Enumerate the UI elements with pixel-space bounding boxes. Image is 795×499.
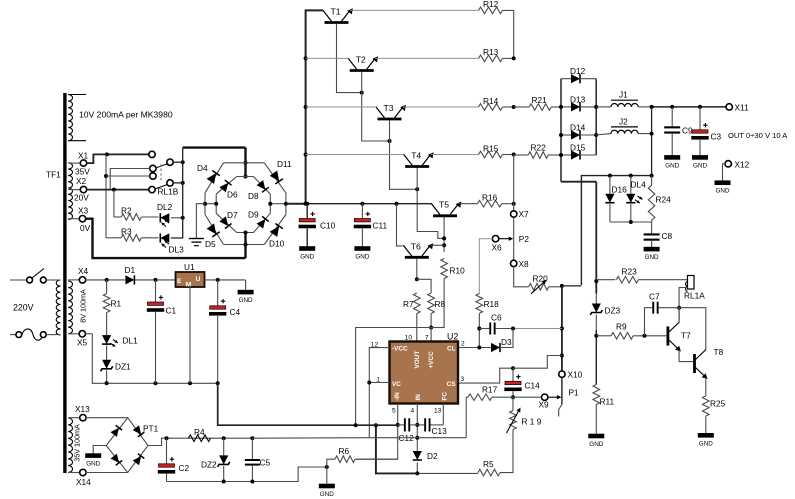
node DL4 top (629, 174, 633, 178)
svg-text:GND: GND (716, 188, 730, 195)
wire C11 bottom (361, 229, 363, 247)
ground R25 (698, 433, 714, 447)
diode D12 (561, 66, 596, 83)
diode PT1 a (111, 425, 123, 437)
node C5 bottom (250, 480, 254, 484)
bridge PT1 diamond (106, 418, 148, 473)
wire C8 to gnd (651, 241, 653, 247)
node T5 base T6emit (442, 243, 446, 247)
node D13 right (594, 105, 598, 109)
svg-text:VOUT: VOUT (414, 351, 421, 369)
diode DL3 (160, 233, 169, 247)
transistor T5 (432, 200, 462, 216)
svg-text:2: 2 (461, 341, 465, 348)
diode PT1 c (111, 454, 123, 466)
transistor T4 (404, 151, 434, 167)
label D5 (205, 239, 216, 249)
bridge outer octagon (205, 163, 286, 245)
svg-text:R18: R18 (484, 299, 500, 309)
wire node to riser (562, 285, 582, 287)
svg-text:D5: D5 (205, 239, 216, 249)
node DZ1 rail (105, 381, 109, 385)
svg-text:GND: GND (320, 491, 334, 498)
node bridge bottom inner (244, 231, 248, 235)
label D7 (227, 210, 238, 220)
svg-text:GND: GND (86, 461, 100, 468)
diode block left rail (560, 79, 562, 182)
label 20V (74, 193, 89, 203)
inductor J1 (596, 90, 651, 107)
ground X12 (715, 180, 731, 194)
node bridge top outer (244, 161, 248, 165)
node neg rail top (374, 423, 378, 427)
label D10 (269, 239, 285, 249)
svg-text:-IN: -IN (394, 392, 401, 401)
svg-text:220V: 220V (13, 303, 34, 313)
U2 pin number 4 (411, 408, 415, 415)
diode D8 (257, 180, 269, 192)
node C6 right (511, 327, 515, 331)
svg-text:35V: 35V (75, 167, 90, 177)
svg-text:R4: R4 (194, 427, 205, 437)
svg-text:20V: 20V (74, 193, 89, 203)
svg-text:R12: R12 (483, 0, 499, 9)
svg-text:10: 10 (405, 334, 413, 341)
wire T4 base chain (417, 168, 444, 239)
label P1 (569, 387, 580, 397)
winding 35V aux (68, 418, 72, 472)
svg-text:T8: T8 (714, 347, 724, 357)
wire D1 to U1 (134, 279, 175, 281)
svg-text:X6: X6 (492, 243, 503, 253)
node bridge top inner (244, 175, 248, 179)
wire plus rail (306, 203, 432, 205)
svg-text:M: M (186, 282, 192, 289)
wire R19 to R5 (500, 445, 513, 473)
node pin2 R18 (477, 346, 481, 350)
wire negative rail thick (376, 425, 417, 473)
label PT1 (143, 424, 159, 434)
diode block right rail (595, 79, 597, 155)
wire R10 bottom (431, 279, 444, 328)
U2 pin number 5 (392, 408, 396, 415)
wire D15 thick L (561, 181, 596, 183)
node DZ2 bottom (222, 480, 226, 484)
wire R5 to D2 node (417, 472, 478, 474)
resistor R21 (529, 95, 551, 110)
svg-text:D7: D7 (227, 210, 238, 220)
svg-text:R20: R20 (533, 274, 549, 284)
capacitor C5 (245, 458, 271, 468)
node R8 rail (429, 326, 433, 330)
svg-text:X5: X5 (77, 338, 88, 348)
U2 pin number 3 (461, 376, 465, 383)
wire R12 to right bus (503, 10, 514, 58)
wire pin5 (356, 404, 398, 460)
terminal X5 (68, 331, 87, 348)
node CS link tap (560, 354, 564, 358)
svg-text:R22: R22 (531, 143, 547, 153)
svg-text:GND: GND (699, 440, 713, 447)
wire X2 branch down (114, 190, 121, 217)
wire X5 stub (85, 333, 92, 335)
wire C14 bottom lead (512, 391, 514, 397)
potentiometer P2 track (513, 217, 515, 260)
transistor T7 (668, 322, 681, 352)
diode D16 (605, 176, 614, 222)
svg-text:R23: R23 (622, 267, 638, 277)
winding primary 220V (56, 280, 60, 335)
ground C11 (354, 246, 370, 260)
svg-text:13: 13 (434, 408, 442, 415)
terminal X1 (68, 151, 88, 167)
diode D7 (219, 216, 231, 228)
zener DZ3 (590, 293, 602, 330)
svg-text:GND: GND (589, 441, 603, 448)
potentiometer P1 tail (559, 405, 562, 417)
node T5 base T4chain (442, 236, 446, 240)
svg-text:GND: GND (693, 162, 707, 169)
capacitor C2 (158, 457, 190, 474)
capacitor C11 (354, 212, 388, 231)
wire C5 leads (251, 438, 253, 481)
label TF1 (46, 170, 61, 180)
U2 pin number 2 (461, 341, 465, 348)
wire C3 to gnd (699, 140, 701, 155)
svg-text:-VCC: -VCC (392, 346, 408, 353)
wire T7 collector up (678, 308, 680, 323)
node bus T2 tap (304, 56, 308, 60)
svg-text:C2: C2 (179, 463, 190, 473)
resistor R7 (403, 293, 420, 314)
terminal X8 (511, 259, 530, 269)
svg-text:T3: T3 (384, 103, 394, 113)
node R6 gnd (325, 465, 329, 469)
U2 pin number 13 (434, 408, 442, 415)
wire DL1 to DZ1 (106, 346, 108, 360)
wire U1 gnd stub (245, 280, 247, 290)
label D6 (227, 190, 238, 200)
svg-text:P1: P1 (569, 387, 580, 397)
wire T1 emitter row R12 (350, 9, 479, 11)
svg-text:X8: X8 (519, 259, 530, 269)
resistor R13 (479, 47, 503, 62)
resistor R6 (327, 446, 355, 467)
diode D15 (561, 142, 596, 159)
svg-text:X14: X14 (76, 477, 91, 487)
label P2 (519, 234, 530, 244)
label 10V 200mA per MK3980 (79, 110, 173, 120)
contact RL1B fixed D (149, 186, 155, 192)
diode D5 (207, 224, 220, 237)
svg-text:R6: R6 (339, 446, 350, 456)
wire main bus vertical (286, 10, 323, 203)
wire C2 leads (166, 438, 168, 481)
wire zero rail lower (219, 424, 398, 426)
wire C4 top lead (217, 280, 219, 306)
wire T2 emitter row R13 (375, 57, 478, 59)
wire T8 emitter down (705, 377, 707, 396)
wire T5 base (443, 217, 445, 252)
svg-text:C13: C13 (432, 426, 448, 436)
svg-text:R16: R16 (482, 193, 498, 203)
svg-text:D10: D10 (269, 239, 285, 249)
U2 pin number 12 (371, 341, 379, 348)
wire X13 line (86, 417, 128, 419)
node U1M rail (188, 381, 192, 385)
wire aux zero rail (92, 334, 217, 384)
potentiometer P1 track (561, 377, 563, 404)
svg-text:8V 100mA: 8V 100mA (79, 289, 88, 323)
node DZ2 top (222, 436, 226, 440)
wire DL2 to bus (171, 217, 183, 219)
U2 pin name VC (392, 381, 401, 388)
diode D3 (491, 337, 512, 352)
node R20 right (560, 284, 564, 288)
diode D1 (125, 265, 136, 285)
svg-text:IN: IN (415, 394, 422, 401)
svg-text:R21: R21 (532, 95, 548, 105)
wire R16 to node (502, 203, 514, 205)
label D9 (248, 210, 259, 220)
wire T4 emitter row R15 (431, 154, 479, 156)
diode D10 (270, 224, 283, 237)
U2 pin name FC (442, 392, 449, 401)
terminal X4 (68, 266, 88, 283)
resistor R24 (648, 185, 671, 220)
svg-text:T2: T2 (356, 54, 366, 64)
ground U1 area (238, 290, 254, 304)
wire CS jog (458, 368, 513, 383)
svg-text:PT1: PT1 (143, 424, 159, 434)
wire C1 bottom lead (155, 312, 157, 383)
node right bus R13 (512, 56, 516, 60)
label DL3 (169, 245, 185, 255)
node J2 riser top (650, 105, 654, 109)
svg-text:CL: CL (447, 346, 456, 353)
wire R7 to pin10 (416, 314, 418, 342)
svg-text:DZ1: DZ1 (115, 362, 131, 372)
wire R13 to right bus (503, 57, 514, 59)
svg-text:X10: X10 (568, 370, 583, 380)
node C5 top (250, 436, 254, 440)
node bridge left outer (203, 202, 207, 206)
ground earth bridge (189, 239, 204, 246)
wire C4 drop (217, 383, 220, 425)
inductor J2 (596, 117, 651, 136)
svg-text:C7: C7 (649, 292, 660, 302)
svg-text:R7: R7 (403, 299, 414, 309)
transistor T3 (376, 103, 406, 119)
svg-text:FC: FC (442, 392, 449, 401)
node C1 rail (154, 381, 158, 385)
svg-text:GND: GND (300, 254, 314, 261)
wire R24 top lead (651, 176, 653, 186)
label U1 (184, 262, 195, 272)
diode D14 (561, 122, 596, 139)
label 0V (80, 223, 91, 233)
wire bridge top feed (244, 148, 246, 177)
svg-text:R11: R11 (600, 397, 615, 407)
terminal X9 (539, 394, 550, 410)
node J2 riser mid (650, 132, 654, 136)
svg-text:U2: U2 (447, 332, 458, 342)
svg-text:X7: X7 (519, 209, 530, 219)
svg-text:D1: D1 (125, 265, 136, 275)
diode DZ2 (201, 438, 230, 469)
node C9 tap (670, 105, 674, 109)
svg-text:GND: GND (645, 254, 659, 261)
label DL2 (157, 202, 173, 212)
node C11 tap (360, 202, 364, 206)
svg-text:J2: J2 (619, 117, 628, 127)
trimmer R20 (529, 274, 549, 294)
node zero rail junction (354, 423, 358, 427)
svg-text:DL3: DL3 (169, 245, 185, 255)
svg-text:C1: C1 (166, 306, 177, 316)
svg-text:U1: U1 (184, 262, 195, 272)
svg-text:D9: D9 (248, 210, 259, 220)
wire armA to bus (173, 161, 183, 163)
node C7 R9 (643, 334, 647, 338)
wire C11 lead (361, 204, 363, 219)
diode D9 (257, 216, 269, 228)
wire D16 DL4 bottom rail (610, 221, 652, 223)
label D4 (197, 163, 208, 173)
svg-text:35V 100mA: 35V 100mA (73, 424, 82, 462)
label RL1A (684, 291, 705, 301)
wire U1 out (205, 279, 246, 281)
node R23 tap (594, 279, 598, 283)
op-amp U2 box (390, 342, 459, 404)
node pin1 pin12 (367, 381, 371, 385)
wire CL D3 line (458, 347, 491, 349)
wire T3 base (390, 120, 418, 189)
ground C8 (644, 247, 660, 261)
svg-text:X3: X3 (78, 206, 89, 216)
label T7 (681, 331, 691, 341)
svg-text:C9: C9 (682, 126, 693, 136)
winding 8V (68, 281, 72, 334)
svg-text:C3: C3 (711, 132, 722, 142)
node DL4 bottom (629, 220, 633, 224)
wire X6 to P2 wiper (499, 237, 513, 241)
wire C4 bottom lead (217, 316, 219, 384)
wire R23 to coil (638, 279, 688, 281)
svg-text:X4: X4 (78, 266, 89, 276)
capacitor C7 (645, 292, 680, 336)
label DZ3 (605, 306, 621, 316)
contact RL1B mid B (150, 165, 156, 171)
ground R11 (588, 434, 604, 448)
terminal X13 (68, 404, 90, 421)
node bus T3 tap (304, 105, 308, 109)
node T6 collector tap (395, 202, 399, 206)
svg-text:TF1: TF1 (46, 170, 61, 180)
wire X9 line (513, 396, 542, 398)
capacitor C6 (479, 313, 513, 335)
svg-text:R14: R14 (483, 96, 499, 106)
wire R9 to T7 base (633, 335, 666, 337)
node bus T4 tap (304, 153, 308, 157)
node C10 tap (305, 202, 309, 206)
svg-text:C4: C4 (230, 307, 241, 317)
svg-text:X1: X1 (78, 151, 89, 161)
svg-text:R24: R24 (656, 195, 672, 205)
wire minus aux rail (252, 437, 369, 440)
U1 pin M (186, 282, 192, 289)
wire X1branch to R3 (106, 237, 121, 239)
svg-text:C11: C11 (373, 221, 388, 231)
diode D6 (219, 180, 231, 192)
wire pin4 (416, 404, 418, 452)
svg-text:E: E (177, 278, 182, 285)
label 220V (13, 303, 34, 313)
wire DL3 to bus (171, 162, 183, 238)
label U2 (447, 332, 458, 342)
resistor R10 (441, 259, 465, 279)
resistor R23 (596, 267, 638, 284)
diode DL1 (102, 335, 138, 347)
ground R6 (319, 467, 335, 498)
svg-text:R8: R8 (435, 299, 446, 309)
resistor R18 (476, 293, 499, 313)
capacitor C12 (398, 418, 418, 443)
svg-text:R1: R1 (111, 299, 122, 309)
wire vcc minus rail (369, 437, 466, 439)
svg-text:C10: C10 (320, 221, 336, 231)
label D11 (277, 159, 292, 169)
wire bus to T3 (306, 106, 376, 108)
switch SW mains (10, 269, 61, 283)
label DL4 (631, 179, 647, 189)
wire PT1 out (148, 438, 167, 445)
label 35V 100mA (73, 424, 82, 462)
node C2 top (165, 436, 169, 440)
capacitor C13 (417, 418, 447, 436)
U2 pin name IN (415, 394, 422, 401)
resistor R5 (478, 459, 500, 476)
svg-text:R 1 9: R 1 9 (522, 417, 542, 427)
ground C10 (299, 246, 315, 260)
wire C1 top lead (155, 280, 157, 302)
label D8 (248, 191, 259, 201)
wire R15 to right bus (503, 154, 514, 156)
resistor R15 (479, 143, 503, 158)
node bridge bottom outer (244, 243, 248, 247)
label 35V (75, 167, 90, 177)
wire T3 emitter row R14 (403, 106, 479, 108)
U2 pin name CL (447, 346, 456, 353)
svg-text:R10: R10 (450, 266, 466, 276)
wire R20 to node (549, 286, 562, 288)
diode DL4 (626, 176, 642, 222)
trimmer R19 (507, 408, 542, 434)
U2 pin number 7 (425, 334, 429, 341)
node T6 base (415, 277, 419, 281)
ground C3 (692, 155, 708, 169)
node D2 bottom (415, 471, 419, 475)
svg-text:X9: X9 (539, 400, 550, 410)
U2 pin name VOUT (414, 351, 421, 369)
node bridge right outer (284, 202, 288, 206)
resistor R14 (479, 96, 503, 111)
node bridge right inner (268, 202, 272, 206)
wire X3 0V rail (86, 219, 246, 258)
wire X8 to R20 (514, 267, 529, 287)
svg-text:D2: D2 (427, 451, 438, 461)
node C3 tap (698, 105, 702, 109)
